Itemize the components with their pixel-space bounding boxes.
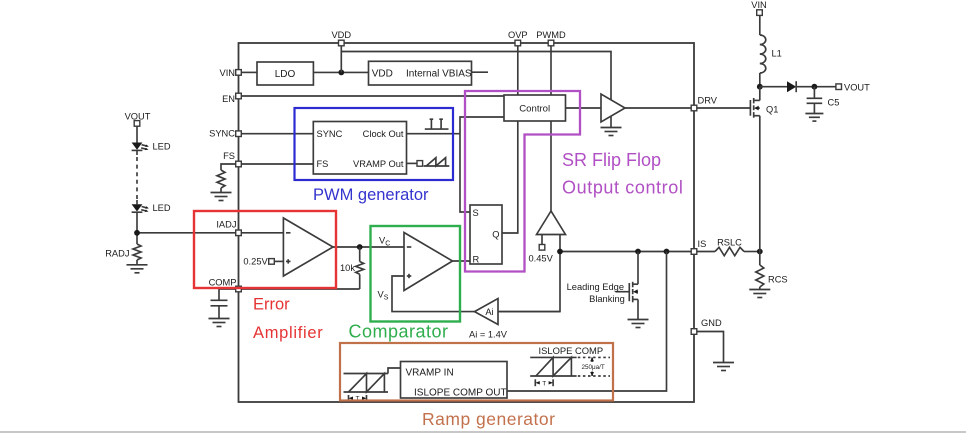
svg-text:LED: LED bbox=[153, 142, 171, 152]
svg-text:Blanking: Blanking bbox=[589, 294, 625, 304]
wire LED node to IADJ bbox=[137, 232, 236, 234]
svg-text:VDD: VDD bbox=[331, 30, 351, 40]
wire COMP pin to compensation cap bbox=[219, 289, 236, 300]
pin VOUT right square bbox=[836, 84, 842, 90]
LDO U2 bbox=[257, 62, 313, 85]
svg-text:250μa/T: 250μa/T bbox=[582, 364, 605, 371]
svg-text:DRV: DRV bbox=[698, 95, 718, 105]
svg-text:PWMD: PWMD bbox=[536, 30, 566, 40]
svg-text:SYNC: SYNC bbox=[317, 129, 343, 139]
Control block U3 bbox=[504, 95, 566, 121]
svg-text:VRAMP IN: VRAMP IN bbox=[406, 368, 454, 379]
capacitor C5 bbox=[807, 98, 823, 103]
SR flip-flop U4 bbox=[470, 205, 502, 265]
svg-text:0.25V: 0.25V bbox=[243, 257, 268, 267]
wire diode to VOUT bbox=[796, 86, 836, 88]
wire L1 to switch node bbox=[759, 73, 761, 87]
svg-text:S: S bbox=[473, 208, 479, 218]
wire EN bbox=[241, 95, 504, 97]
svg-text:Ramp generator: Ramp generator bbox=[422, 409, 555, 429]
wire islope comp out riser bbox=[507, 252, 667, 392]
svg-text:ISLOPE COMP: ISLOPE COMP bbox=[539, 345, 604, 356]
node VDD-LDO junction bbox=[338, 70, 344, 76]
ground C5 bbox=[805, 114, 823, 122]
pin 0.45V square bbox=[539, 245, 545, 251]
transistor Q1 mosfet bbox=[750, 98, 759, 118]
wire switch node to diode bbox=[760, 86, 787, 88]
resistor RADJ bbox=[133, 244, 141, 260]
ground GND pin bbox=[713, 363, 734, 371]
svg-text:Ai: Ai bbox=[485, 307, 493, 317]
svg-text:OVP: OVP bbox=[508, 30, 528, 40]
svg-text:VDD: VDD bbox=[372, 69, 393, 80]
comparator U8 bbox=[404, 233, 453, 291]
svg-text:FS: FS bbox=[223, 151, 235, 161]
pin EN bbox=[236, 93, 242, 99]
node switch bbox=[757, 84, 763, 90]
svg-text:VIN: VIN bbox=[220, 68, 236, 78]
PWM generator oscillator block bbox=[313, 122, 406, 175]
minus sign comparator bbox=[407, 246, 412, 248]
svg-text:ISLOPE COMP OUT: ISLOPE COMP OUT bbox=[414, 388, 507, 399]
wire error amp output bbox=[333, 246, 404, 248]
op-amp driver U6 bbox=[601, 94, 625, 122]
svg-text:PWM generator: PWM generator bbox=[313, 186, 429, 204]
wire resistor to ground bbox=[220, 188, 222, 193]
wire VDD pin down bbox=[340, 46, 342, 73]
svg-text:0.45V: 0.45V bbox=[529, 254, 554, 264]
wire VDD branch to driver supply bbox=[341, 52, 611, 100]
wire Ai input from IS node bbox=[498, 311, 560, 313]
LED D2 bbox=[132, 143, 149, 151]
wire FS bbox=[241, 163, 313, 165]
wire LDO to VBIAS bbox=[313, 71, 368, 73]
pin SYNC bbox=[236, 131, 242, 137]
bottom window edge line bbox=[0, 431, 966, 433]
pin VOUT top left square bbox=[134, 121, 140, 127]
wire VOUT to LED1 bbox=[136, 126, 138, 142]
wire IS pin to RSLC bbox=[697, 251, 715, 253]
error amplifier red box bbox=[194, 211, 336, 288]
pin COMP bbox=[236, 286, 242, 292]
wire Control to blanking comparator bbox=[550, 121, 552, 211]
svg-text:Leading Edge: Leading Edge bbox=[567, 282, 624, 292]
inductor L1 bbox=[760, 35, 766, 73]
wire FS branch to resistor bbox=[221, 164, 236, 170]
svg-text:Amplifier: Amplifier bbox=[253, 324, 323, 342]
wire Clock Out bbox=[407, 133, 461, 135]
wire LEB source to ground bbox=[637, 299, 639, 319]
node LEB tap bbox=[635, 249, 641, 255]
op-amp error amplifier U7 bbox=[283, 218, 333, 276]
ground RCS bbox=[749, 290, 770, 298]
svg-text:EN: EN bbox=[222, 94, 235, 104]
svg-text:VIN: VIN bbox=[751, 0, 767, 10]
node C5 tap bbox=[812, 84, 818, 90]
wire node to RCS bbox=[759, 252, 761, 266]
comparator green box bbox=[371, 226, 461, 322]
svg-text:Internal VBIAS: Internal VBIAS bbox=[406, 69, 472, 80]
wire Q1 drain up bbox=[759, 87, 761, 101]
wire cap to ground bbox=[218, 306, 220, 319]
ramp generator block bbox=[401, 362, 508, 399]
wire S path from Control to flip-flop bbox=[460, 117, 504, 212]
ground LEB bbox=[628, 320, 649, 328]
svg-text:Control: Control bbox=[519, 104, 550, 115]
wire driver output to DRV pin bbox=[625, 107, 691, 109]
node islope tap bbox=[664, 249, 670, 255]
svg-text:IS: IS bbox=[698, 239, 707, 249]
wire RCS to ground bbox=[759, 287, 761, 290]
vramp waveform icon bbox=[424, 158, 450, 166]
svg-text:LDO: LDO bbox=[275, 69, 296, 80]
svg-text:RSLC: RSLC bbox=[717, 238, 742, 248]
svg-text:Q1: Q1 bbox=[766, 105, 778, 115]
wire 0.25V to plus input bbox=[274, 260, 283, 262]
plus sign comparator bbox=[407, 274, 412, 278]
T period marker islope bbox=[535, 379, 553, 387]
wire GND pin to ground bbox=[697, 332, 724, 363]
ground driver bbox=[601, 128, 622, 136]
wire Control output to driver bbox=[566, 107, 602, 109]
wire RSLC to sense node bbox=[744, 251, 760, 253]
ground FS bbox=[211, 193, 232, 201]
pin VIN bbox=[236, 70, 242, 76]
svg-text:Comparator: Comparator bbox=[349, 322, 449, 342]
wire 10k to COMP feedback bbox=[359, 274, 361, 289]
svg-text:VOUT: VOUT bbox=[844, 82, 870, 92]
transistor LEB mosfet bbox=[616, 282, 639, 303]
wire driver ground stub bbox=[610, 117, 612, 128]
svg-text:GND: GND bbox=[701, 318, 722, 328]
wire C5 to ground bbox=[813, 103, 815, 113]
wire 0.45V input bbox=[541, 235, 543, 245]
wire LEB drain bbox=[637, 252, 639, 285]
pin OVP bbox=[515, 40, 521, 46]
wire IS current sense line bbox=[560, 251, 691, 253]
svg-text:IADJ: IADJ bbox=[216, 219, 236, 229]
wire SYNC bbox=[241, 133, 313, 135]
capacitor compensation bbox=[211, 300, 228, 306]
wire VIN to L1 bbox=[759, 15, 761, 35]
wire OVP down bbox=[517, 46, 519, 95]
wire junction to 10k resistor bbox=[359, 247, 361, 262]
plus sign error amp bbox=[286, 259, 291, 263]
svg-text:L1: L1 bbox=[772, 49, 782, 59]
wire RADJ to ground bbox=[136, 260, 138, 265]
pin FS bbox=[236, 161, 242, 167]
resistor R 10k bbox=[356, 262, 364, 275]
minus sign error amp bbox=[286, 232, 291, 234]
wire Q1 source down bbox=[759, 116, 761, 252]
diode D1 bbox=[787, 81, 796, 92]
SR flip flop purple outline bbox=[465, 91, 580, 272]
svg-text:SYNC: SYNC bbox=[209, 129, 235, 139]
svg-text:T: T bbox=[356, 396, 360, 403]
svg-text:Error: Error bbox=[253, 296, 290, 314]
svg-text:COMP: COMP bbox=[209, 278, 237, 288]
svg-text:LED: LED bbox=[153, 203, 171, 213]
wire C5 top bbox=[813, 87, 815, 98]
svg-text:VOUT: VOUT bbox=[125, 111, 151, 121]
pin 0.25V square bbox=[269, 259, 275, 265]
wire IADJ to op-amp minus bbox=[241, 232, 283, 234]
vramp in waveform icon bbox=[344, 374, 389, 393]
wire comparator output to R input bbox=[453, 260, 471, 262]
wire PWMD down bbox=[550, 46, 552, 95]
svg-text:FS: FS bbox=[317, 159, 329, 169]
svg-text:RCS: RCS bbox=[768, 275, 788, 285]
svg-text:10k: 10k bbox=[340, 263, 355, 273]
svg-text:SR Flip Flop: SR Flip Flop bbox=[562, 150, 661, 170]
node error amp output junction bbox=[357, 244, 363, 250]
pin IADJ bbox=[236, 230, 242, 236]
wire blanking comparator right input to IS / Ai bbox=[498, 235, 560, 312]
pin VRAMP Out square bbox=[417, 161, 423, 167]
svg-text:C5: C5 bbox=[828, 98, 840, 108]
node Ai tap bbox=[557, 249, 563, 255]
ground compensation cap bbox=[209, 319, 230, 327]
wire VRAMP IN stub bbox=[388, 368, 401, 374]
resistor FS timing bbox=[217, 170, 225, 188]
wire dashed LED string bbox=[136, 150, 138, 204]
wire LED2 to RADJ bbox=[136, 212, 138, 244]
T period marker vramp bbox=[349, 395, 367, 403]
svg-text:VRAMP Out: VRAMP Out bbox=[353, 159, 404, 169]
svg-text:R: R bbox=[473, 255, 480, 265]
pin VIN top right square bbox=[757, 10, 763, 16]
pin GND bbox=[691, 329, 697, 335]
wire VRAMP Out stub bbox=[407, 162, 418, 164]
gain amp Ai U9 bbox=[475, 299, 499, 325]
pin DRV bbox=[691, 105, 697, 111]
wire VBIAS stub bbox=[472, 71, 489, 73]
resistor RCS bbox=[756, 265, 764, 287]
IC boundary box bbox=[239, 43, 695, 402]
wire VIN to LDO bbox=[241, 71, 257, 73]
Internal VBIAS block bbox=[369, 61, 472, 85]
wire Vs input path bbox=[392, 276, 475, 312]
resistor RSLC bbox=[715, 247, 744, 255]
wire Q output to Control bbox=[502, 121, 518, 233]
PWM generator blue box bbox=[295, 108, 454, 180]
node current sense bbox=[757, 249, 763, 255]
wire COMP feedback bbox=[241, 288, 359, 290]
svg-text:Q: Q bbox=[492, 230, 499, 240]
svg-text:RADJ: RADJ bbox=[105, 248, 129, 258]
svg-text:Output control: Output control bbox=[562, 178, 683, 198]
LED D3 bbox=[132, 204, 149, 212]
ground RADJ bbox=[127, 265, 148, 273]
ramp generator brown box bbox=[340, 343, 613, 401]
comparator blanking U5 0.45V bbox=[537, 211, 566, 235]
node LED feedback bbox=[134, 230, 140, 236]
islope comp waveform icon bbox=[530, 357, 576, 376]
pin PWMD bbox=[548, 40, 554, 46]
wire DRV pin to Q1 gate bbox=[697, 107, 750, 109]
clock waveform icon bbox=[425, 119, 449, 129]
pin VDD bbox=[339, 40, 345, 46]
svg-text:Ai = 1.4V: Ai = 1.4V bbox=[469, 330, 508, 340]
svg-text:Clock Out: Clock Out bbox=[363, 129, 404, 139]
pin IS bbox=[691, 249, 697, 255]
svg-text:T: T bbox=[542, 380, 546, 387]
dashed slope annotation bbox=[578, 357, 610, 376]
